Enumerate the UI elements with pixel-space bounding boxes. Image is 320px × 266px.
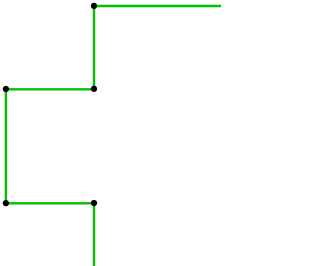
wire upper vertical bbox=[93, 6, 95, 89]
wire top horizontal bbox=[94, 5, 221, 7]
wire lower vertical bbox=[93, 203, 95, 266]
junction top node bbox=[91, 3, 97, 9]
junction middle-right node bbox=[91, 86, 97, 92]
wire bottom horizontal bbox=[6, 202, 94, 204]
junction bottom-right node bbox=[91, 200, 97, 206]
wire left vertical bbox=[5, 89, 7, 203]
junction bottom-left node bbox=[3, 200, 9, 206]
junction middle-left node bbox=[3, 86, 9, 92]
wire middle horizontal bbox=[6, 88, 94, 90]
